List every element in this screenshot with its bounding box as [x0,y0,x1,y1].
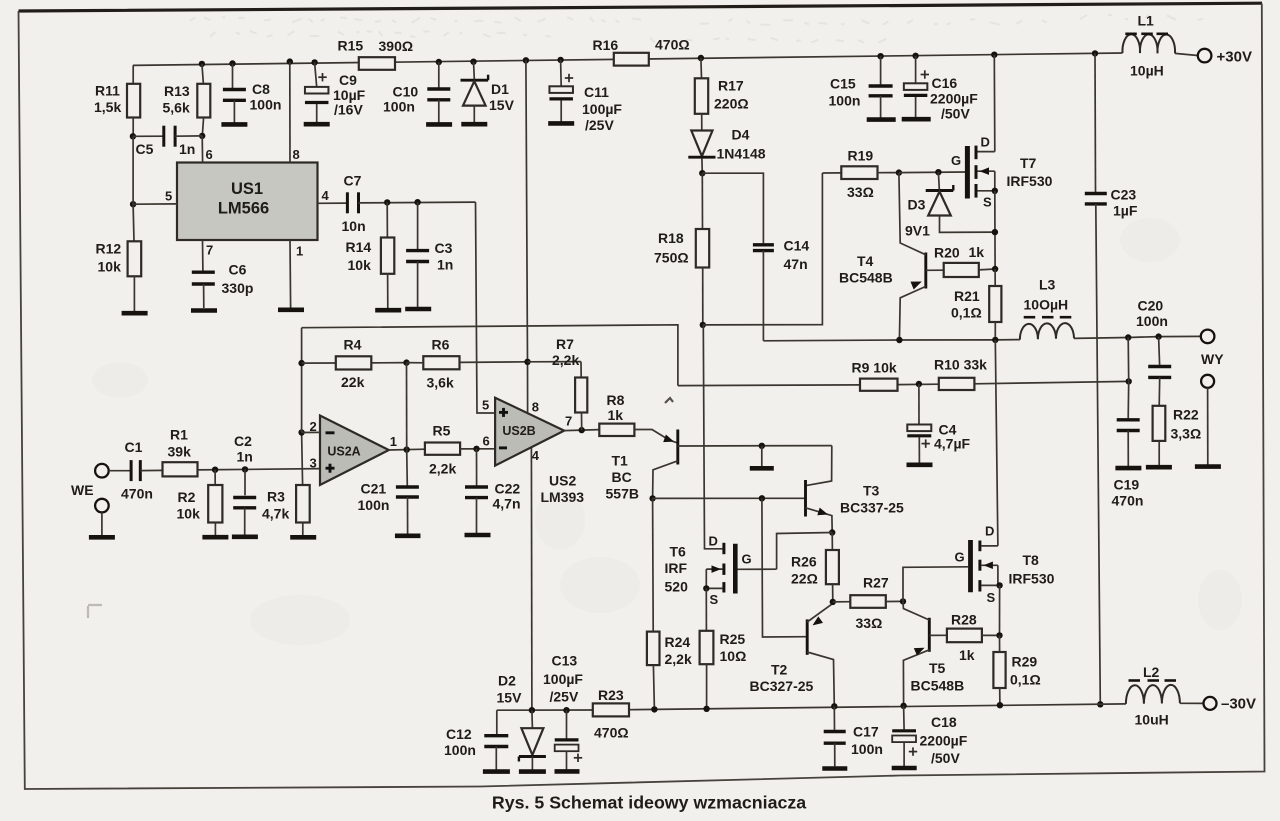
node C13 junction [563,707,569,713]
svg-text:10k: 10k [98,259,122,275]
svg-text:557B: 557B [606,485,639,501]
svg-text:D4: D4 [732,127,750,143]
svg-text:10k: 10k [348,257,372,273]
svg-text:1µF: 1µF [1113,202,1138,218]
svg-text:10uH: 10uH [1135,712,1169,728]
node R11-C5 junction [130,133,136,139]
svg-text:2: 2 [310,419,317,434]
svg-text:R16: R16 [593,37,619,53]
ground under C6 [191,308,217,313]
svg-text:S: S [983,195,992,210]
ground under C13 [555,769,580,774]
terminal WE lower [95,499,109,535]
svg-text:S: S [710,592,719,607]
resistor R5 [425,422,495,476]
svg-text:1k: 1k [969,244,985,260]
ground under R2 [202,535,228,540]
capacitor C8 [223,60,282,122]
inductor L1 [1122,13,1175,79]
resistor R16 [593,36,690,65]
svg-text:R6: R6 [432,337,450,353]
ground under C19 [1115,466,1141,471]
resistor R8 [599,392,634,436]
svg-text:US1: US1 [231,180,263,198]
resistor R23 [593,687,629,741]
svg-text:4,7k: 4,7k [262,505,289,521]
svg-text:2,2k: 2,2k [665,651,692,667]
wire L2 to -30V terminal [1180,702,1204,704]
node T6 gate drop junction [759,495,765,501]
wire T7 source down to R20 node [994,191,996,269]
US2B pin 8 label [532,399,539,414]
svg-text:C23: C23 [1111,187,1137,203]
node R21 bottom on line B [992,337,998,343]
caption Rys. 5 [492,793,806,813]
transistor T3 BC337-25 [806,480,905,533]
node R27-T5-T8 gate junction [900,598,906,604]
svg-text:D1: D1 [491,81,509,97]
terminal +30V [1198,48,1252,65]
node R26-R27-T2 junction [830,599,836,605]
wire T7 gate [899,171,965,174]
ground under C11 [548,121,574,126]
US1 pin 4 [318,188,347,203]
resistor R12 [96,136,142,311]
US2B pin 6 label [483,434,490,449]
svg-text:5: 5 [165,189,172,204]
svg-text:US2: US2 [549,473,576,489]
capacitor C18 (electrolytic) [892,706,968,766]
svg-text:R24: R24 [665,634,691,650]
US1 pin 8 [287,58,300,162]
op-amp US2B [495,398,564,466]
capacitor C1 [109,439,153,502]
US2A pin 2 wire [298,419,320,436]
page scan top edge [19,3,1263,11]
svg-text:BC: BC [612,469,632,485]
node T4 emitter on line B [896,337,902,343]
node output-R7 junction [579,427,585,433]
US2B pin 4 label [532,448,540,463]
svg-text:D: D [981,134,990,149]
resistor R9 [852,359,898,391]
svg-text:47n: 47n [784,256,808,272]
zener diode D1 [461,59,515,123]
svg-text:R12: R12 [96,241,122,257]
svg-text:C6: C6 [229,262,247,278]
svg-text:1: 1 [390,434,397,449]
svg-text:G: G [951,153,961,168]
svg-text:C11: C11 [584,84,609,100]
svg-text:3,3Ω: 3,3Ω [1171,425,1202,441]
ground under C16 [902,117,931,122]
terminal WY upper [1201,330,1224,367]
ground under C8 [221,122,247,127]
svg-text:0,1Ω: 0,1Ω [951,304,982,320]
svg-text:1n: 1n [179,141,195,157]
inductor L2 [1126,664,1180,727]
resistor R4 [298,337,406,391]
node R2 junction [212,467,218,473]
US2B pin 5 label [482,397,489,412]
svg-text:1k: 1k [959,647,975,663]
terminal WY lower [1201,375,1214,465]
resistor R27 [833,574,903,631]
resistor R1 [140,427,197,477]
svg-text:R18: R18 [658,230,684,246]
resistor R17 [695,55,749,131]
svg-text:C18: C18 [931,714,957,730]
svg-text:G: G [742,552,752,567]
wire US2A output [389,448,425,451]
node T5 emitter-C18 junction [900,703,906,709]
node R25 bottom junction [703,706,709,712]
ground under C9 [304,122,330,127]
US1 pin 7 [203,240,214,271]
svg-text:R3: R3 [267,489,285,505]
capacitor C21 [358,363,419,534]
ground under C22 [465,533,491,538]
diode D4 [688,127,765,174]
svg-text:100n: 100n [358,497,390,513]
ground under WE [89,535,115,540]
node R28-R29 junction [996,632,1002,638]
svg-text:R17: R17 [718,78,744,94]
wire T3 emitter to T6 gate [777,533,833,570]
svg-text:T2: T2 [771,661,788,677]
node R18-T1 collector junction [700,322,706,328]
node D2 junction [529,707,535,713]
svg-text:7: 7 [565,414,572,429]
svg-text:4: 4 [322,188,330,203]
wire +30V top rail [133,53,1123,65]
wire T7 source output line (node B) [763,336,1200,340]
svg-text:BC548B: BC548B [911,678,965,694]
capacitor C10 [383,59,450,123]
svg-text:LM566: LM566 [218,200,269,218]
svg-text:C13: C13 [552,652,578,668]
ground under C10 [426,122,452,127]
svg-text:520: 520 [665,579,689,595]
svg-text:330p: 330p [222,280,254,296]
node R10 to C19 vertical junction [1126,378,1132,384]
svg-text:L2: L2 [1143,664,1160,680]
svg-text:4: 4 [532,448,540,463]
svg-text:C3: C3 [435,240,453,256]
svg-text:R26: R26 [791,553,817,569]
svg-text:T7: T7 [1020,155,1037,171]
US1 pin 5 [130,189,177,208]
svg-text:100n: 100n [829,92,861,108]
resistor R18 [654,173,709,325]
svg-text:R7: R7 [556,336,574,352]
capacitor C14 [702,173,809,341]
node T1 collector - T3 base junction [649,495,655,501]
wire C7 node down to US2B pin 5 [476,202,496,413]
resistor R22 [1153,406,1202,465]
svg-text:3,6k: 3,6k [427,374,454,390]
svg-text:100n: 100n [250,97,282,113]
ground under R12 [122,311,148,316]
svg-text:C15: C15 [830,76,856,92]
svg-text:10µH: 10µH [1130,62,1164,78]
wire T8 drain to line B [995,340,998,546]
node R20-R21 junction [992,266,998,272]
US2A pin 3 label [310,455,317,470]
ground under R3 [290,535,316,540]
svg-text:T8: T8 [1023,552,1040,568]
svg-text:L1: L1 [1138,13,1155,29]
svg-text:1: 1 [296,244,303,259]
resistor R10 [934,357,987,391]
svg-text:22Ω: 22Ω [791,570,818,586]
svg-text:100n: 100n [383,99,415,115]
resistor R21 [951,269,1001,340]
ground under WY lower [1195,464,1221,469]
svg-text:T6: T6 [670,544,687,560]
capacitor C12 [444,710,508,770]
US1 pin 1 [290,240,303,308]
svg-text:8: 8 [532,399,539,414]
wire R1 to US2A pin 3 [198,469,321,470]
svg-text:10n: 10n [342,218,366,234]
resistor R25 [700,588,747,708]
svg-text:R14: R14 [346,239,372,255]
ground under US1 pin 1 [278,307,304,312]
zener diode D2 [497,672,546,769]
wire +30V rail to R6-R7 node [523,57,529,413]
svg-text:10OµH: 10OµH [1024,297,1069,313]
node T1 base ground tap [759,443,765,467]
wire T6 gate [738,568,777,570]
svg-text:R21: R21 [954,288,980,304]
svg-text:R25: R25 [720,631,746,647]
svg-text:T3: T3 [863,482,880,498]
svg-text:R10 33k: R10 33k [934,357,987,373]
svg-text:5,6k: 5,6k [163,100,190,116]
node R14 junction [384,199,390,205]
svg-text:100n: 100n [1136,313,1168,329]
svg-text:R20: R20 [934,245,960,261]
svg-text:BC327-25: BC327-25 [750,678,814,694]
resistor R3 [262,433,310,536]
transistor T5 BC548B [903,601,964,705]
svg-text:L3: L3 [1039,277,1056,293]
zener diode D3 [905,172,995,238]
transistor T4 BC548B [839,173,926,340]
node R4-R6-C21 junction [403,359,409,365]
wire T3 collector [806,446,832,486]
resistor R19 [822,147,899,200]
US2 LM393 label [541,473,585,506]
US2A pin 1 label [390,434,397,449]
node C23 to -30V rail junction [1097,701,1103,707]
svg-text:WY: WY [1201,351,1224,367]
svg-text:C17: C17 [853,723,879,739]
wire L1 to +30V terminal [1175,53,1198,55]
svg-text:6: 6 [483,434,490,449]
svg-text:100µF: 100µF [543,671,583,687]
node R23-R24 junction [651,706,657,712]
svg-text:2200µF: 2200µF [920,732,968,748]
capacitor C4 [907,384,970,463]
svg-text:470n: 470n [1112,492,1144,508]
wire US2 pin 4 down to D2 node [530,448,533,710]
svg-text:220Ω: 220Ω [714,96,749,112]
svg-text:C5: C5 [136,141,154,157]
svg-text:US2B: US2B [502,424,535,438]
capacitor C16 (electrolytic) [904,53,978,122]
svg-text:1,5k: 1,5k [94,99,121,115]
svg-text:2200µF: 2200µF [930,91,978,107]
capacitor C13 (electrolytic) [543,652,583,769]
svg-text:2,2k: 2,2k [429,461,456,477]
svg-text:IRF: IRF [665,560,688,576]
wire T1 collector node down to T2 base [762,498,807,637]
node R13-C5-pin6 junction [199,133,205,139]
svg-text:R2: R2 [178,489,196,505]
resistor R20 [926,244,995,277]
transistor T6 IRF520 [665,325,752,607]
node C19 tap on line B [1125,334,1131,340]
svg-text:5: 5 [482,397,489,412]
node D3-S link junction [992,229,998,235]
svg-text:7: 7 [206,243,213,258]
wire C7 output node [359,201,476,204]
resistor R24 [647,632,692,710]
svg-text:C16: C16 [932,75,958,91]
ground under C4 [907,462,933,467]
svg-text:/50V: /50V [931,750,960,766]
node C2 junction [242,466,248,472]
svg-text:6: 6 [206,147,213,162]
svg-text:100µF: 100µF [582,101,622,117]
svg-text:R8: R8 [607,392,625,408]
svg-text:0,1Ω: 0,1Ω [1010,671,1041,687]
wire feedback to comparator (node C) [678,381,1129,385]
wire feedback left vertical [301,328,303,433]
svg-text:R23: R23 [598,687,624,703]
svg-text:/25V: /25V [550,689,579,705]
svg-text:–30V: –30V [1221,695,1256,712]
svg-text:15V: 15V [497,689,523,705]
svg-text:2,2k: 2,2k [552,352,579,368]
wire feedback line to R9 (node A) [302,325,678,386]
svg-text:100n: 100n [851,741,883,757]
svg-text:1k: 1k [608,407,624,423]
svg-text:S: S [987,590,996,605]
svg-text:IRF530: IRF530 [1009,570,1055,586]
wire R8 to T1 emitter [634,430,677,444]
svg-text:10Ω: 10Ω [720,648,747,664]
svg-text:/16V: /16V [334,102,363,118]
svg-text:R9 10k: R9 10k [852,359,897,375]
svg-text:C7: C7 [344,173,362,189]
resistor R28 [929,612,999,663]
capacitor C23 [1085,50,1138,704]
node US2A output-C21 junction [404,446,410,452]
svg-text:WE: WE [71,482,94,498]
svg-text:39k: 39k [168,443,192,459]
svg-text:C2: C2 [234,433,252,449]
svg-text:R13: R13 [164,83,190,99]
svg-text:T4: T4 [857,253,874,269]
svg-text:C9: C9 [339,72,357,88]
ground under C12 [483,769,510,774]
svg-text:BC548B: BC548B [839,269,893,285]
svg-text:9V1: 9V1 [905,222,930,238]
node R29 bottom junction [997,702,1003,708]
svg-text:R11: R11 [95,83,120,99]
svg-text:R27: R27 [863,574,889,590]
svg-text:/25V: /25V [585,117,614,133]
svg-text:G: G [955,550,965,565]
svg-text:R29: R29 [1012,653,1038,669]
svg-text:4,7µF: 4,7µF [934,435,971,451]
wire T1 base line [678,445,832,447]
svg-text:D: D [709,533,718,548]
svg-text:/50V: /50V [941,106,970,122]
ground under C17 [822,766,847,771]
resistor R7 [528,336,588,430]
node C4 junction [916,381,922,387]
node D3 tap on gate wire [935,169,941,175]
node T2 collector-C17 junction [831,703,837,709]
resistor R14 [346,202,395,308]
node R19-D3-T4 junction [896,169,902,175]
svg-text:3: 3 [310,455,317,470]
node T7 source junction [992,188,998,194]
wire T7 drain to +30V rail [991,52,997,152]
ground under D1 [461,122,487,127]
op-amp US2A [320,416,389,486]
svg-text:1n: 1n [237,448,253,464]
wire US2B output [564,430,599,431]
wire T8 gate [903,567,968,602]
svg-text:+30V: +30V [1217,48,1252,65]
svg-text:C8: C8 [252,81,270,97]
capacitor C3 [406,202,453,307]
svg-text:Rys. 5 Schemat ideowy wzmacnia: Rys. 5 Schemat ideowy wzmacniacza [492,793,806,813]
resistor R2 [177,470,223,535]
ground under C2 [232,534,258,539]
node C20 tap on line B [1155,333,1161,339]
ground under D2 [519,769,546,774]
svg-text:C12: C12 [446,726,472,742]
resistor R26 [791,533,839,602]
svg-text:470Ω: 470Ω [594,725,629,741]
wire T3 base line [653,497,806,499]
svg-text:US2A: US2A [327,445,360,459]
capacitor C15 [829,53,893,118]
svg-text:T5: T5 [929,660,946,676]
svg-text:15V: 15V [489,97,515,113]
svg-text:10k: 10k [177,505,201,521]
capacitor C17 [824,706,883,766]
svg-text:R22: R22 [1173,407,1199,423]
capacitor C19 [1112,338,1144,509]
svg-text:D2: D2 [498,672,516,688]
svg-text:C21: C21 [361,481,387,497]
svg-text:C10: C10 [393,83,419,99]
node T6 source junction [703,585,709,591]
resistor R15 [338,38,414,70]
svg-text:8: 8 [293,147,300,162]
node C3 junction [414,199,420,205]
ground under C15 [867,117,896,122]
wire T8 source to R28 node [999,585,1001,635]
capacitor C22 [465,449,521,533]
